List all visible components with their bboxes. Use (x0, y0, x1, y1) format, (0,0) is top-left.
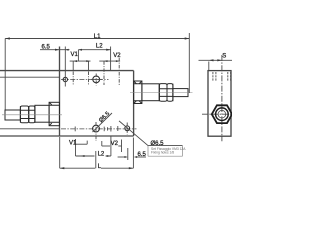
svg-text:L1: L1 (94, 34, 101, 40)
svg-text:6.5: 6.5 (42, 45, 51, 51)
svg-text:V1: V1 (69, 140, 77, 146)
svg-text:S: S (222, 54, 226, 60)
svg-text:Ø6.5: Ø6.5 (98, 111, 111, 124)
svg-text:V2: V2 (113, 53, 121, 59)
svg-text:6.5: 6.5 (138, 152, 147, 158)
svg-text:V2: V2 (111, 141, 119, 147)
svg-text:V1: V1 (71, 52, 79, 58)
svg-text:L2: L2 (98, 152, 105, 158)
svg-text:Ø6.5: Ø6.5 (151, 141, 165, 147)
svg-text:L: L (98, 164, 102, 170)
svg-text:L2: L2 (96, 43, 103, 49)
svg-text:Fixing holes 1/8: Fixing holes 1/8 (151, 151, 174, 155)
